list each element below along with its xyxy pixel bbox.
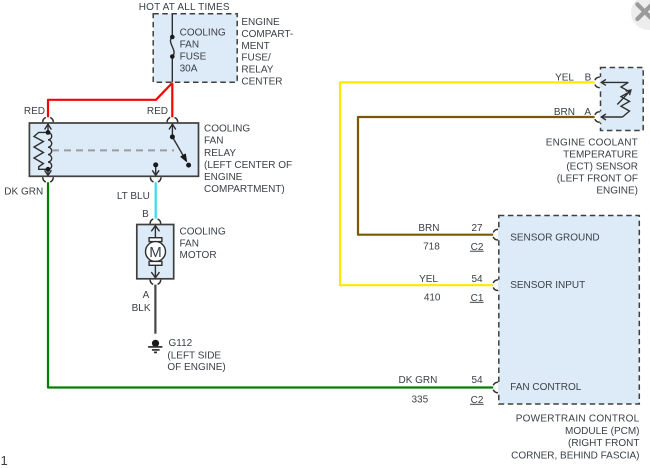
svg-text:CENTER: CENTER	[241, 76, 282, 87]
svg-text:FAN: FAN	[180, 238, 199, 249]
svg-text:TEMPERATURE: TEMPERATURE	[563, 149, 638, 160]
svg-text:410: 410	[424, 293, 441, 304]
svg-text:DK GRN: DK GRN	[4, 186, 43, 197]
svg-text:FUSE/: FUSE/	[241, 53, 271, 64]
svg-text:G112: G112	[169, 338, 193, 349]
svg-text:A: A	[143, 290, 150, 301]
svg-text:CORNER, BEHIND FASCIA): CORNER, BEHIND FASCIA)	[511, 450, 639, 461]
svg-text:COMPART-: COMPART-	[241, 29, 293, 40]
svg-text:ENGINE: ENGINE	[241, 17, 280, 28]
svg-text:(LEFT SIDE: (LEFT SIDE	[167, 350, 221, 361]
svg-text:MENT: MENT	[241, 41, 269, 52]
svg-text:54: 54	[471, 274, 483, 285]
svg-text:BLK: BLK	[132, 303, 151, 314]
svg-text:27: 27	[471, 223, 483, 234]
svg-text:COMPARTMENT): COMPARTMENT)	[204, 184, 285, 195]
svg-text:54: 54	[471, 375, 483, 386]
svg-text:RELAY: RELAY	[204, 148, 236, 159]
svg-text:POWERTRAIN CONTROL: POWERTRAIN CONTROL	[516, 414, 640, 425]
svg-text:1: 1	[1, 453, 8, 468]
svg-text:FAN: FAN	[180, 40, 199, 51]
svg-text:SENSOR GROUND: SENSOR GROUND	[510, 232, 599, 243]
svg-text:RED: RED	[24, 106, 45, 117]
svg-text:COOLING: COOLING	[180, 227, 226, 238]
svg-text:SENSOR INPUT: SENSOR INPUT	[510, 280, 585, 291]
svg-text:BRN: BRN	[418, 223, 439, 234]
svg-text:ENGINE COOLANT: ENGINE COOLANT	[546, 137, 638, 148]
svg-text:MOTOR: MOTOR	[180, 250, 217, 261]
svg-text:FAN CONTROL: FAN CONTROL	[510, 382, 582, 393]
svg-text:718: 718	[423, 241, 440, 252]
svg-text:LT BLU: LT BLU	[117, 191, 150, 202]
svg-text:COOLING: COOLING	[180, 27, 226, 38]
svg-text:B: B	[585, 72, 592, 83]
svg-text:COOLING: COOLING	[204, 124, 250, 135]
svg-text:B: B	[142, 209, 149, 220]
svg-text:BRN: BRN	[554, 107, 575, 118]
svg-text:OF ENGINE): OF ENGINE)	[167, 362, 225, 373]
svg-text:30A: 30A	[180, 64, 198, 75]
svg-text:(LEFT FRONT OF: (LEFT FRONT OF	[557, 174, 638, 185]
svg-text:M: M	[149, 244, 162, 261]
svg-text:(ECT) SENSOR: (ECT) SENSOR	[566, 162, 638, 173]
svg-text:FUSE: FUSE	[180, 52, 207, 63]
svg-text:ENGINE): ENGINE)	[596, 186, 638, 197]
svg-text:YEL: YEL	[555, 72, 574, 83]
svg-text:RED: RED	[147, 106, 168, 117]
svg-text:RELAY: RELAY	[241, 64, 273, 75]
svg-text:DK GRN: DK GRN	[398, 375, 437, 386]
svg-text:(RIGHT FRONT: (RIGHT FRONT	[568, 438, 639, 449]
svg-text:HOT AT ALL TIMES: HOT AT ALL TIMES	[139, 2, 230, 13]
svg-text:ENGINE: ENGINE	[204, 172, 243, 183]
svg-text:MODULE (PCM): MODULE (PCM)	[565, 426, 639, 437]
svg-text:A: A	[584, 107, 591, 118]
svg-text:(LEFT CENTER OF: (LEFT CENTER OF	[204, 160, 292, 171]
svg-text:335: 335	[412, 394, 429, 405]
svg-text:YEL: YEL	[419, 274, 438, 285]
svg-text:FAN: FAN	[204, 136, 223, 147]
